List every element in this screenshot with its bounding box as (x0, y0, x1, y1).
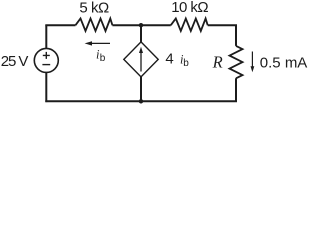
wire top right (208, 25, 236, 46)
minus sign (42, 64, 50, 66)
svg-text:b: b (183, 58, 189, 69)
svg-text:0.5 mA: 0.5 mA (260, 55, 308, 72)
svg-text:4: 4 (165, 51, 173, 68)
wire left bottom segment (45, 72, 47, 102)
wire middle top segment (140, 25, 142, 42)
current arrow 0.5 mA (251, 52, 253, 67)
resistor R vertical (230, 46, 243, 78)
node bottom junction dot (139, 99, 143, 103)
current arrow ib (89, 42, 110, 44)
svg-text:10 kΩ: 10 kΩ (171, 0, 208, 16)
wire top middle (112, 24, 170, 26)
wire right bottom (45, 78, 236, 101)
resistor R2 10 kOhm (171, 19, 208, 32)
svg-text:25 V: 25 V (1, 53, 29, 70)
voltage source V1 circle (34, 48, 58, 72)
wire middle bottom segment (140, 77, 142, 101)
wire top left (46, 23, 75, 26)
resistor R1 5 kOhm (76, 19, 113, 32)
arrow inside diamond (140, 51, 142, 72)
svg-text:5 kΩ: 5 kΩ (79, 0, 109, 16)
wire left top segment (45, 25, 47, 48)
dependent source U1 diamond (124, 42, 158, 77)
plus sign (43, 52, 50, 59)
svg-text:b: b (100, 53, 106, 64)
node top junction dot (139, 23, 143, 27)
svg-text:R: R (212, 52, 223, 71)
